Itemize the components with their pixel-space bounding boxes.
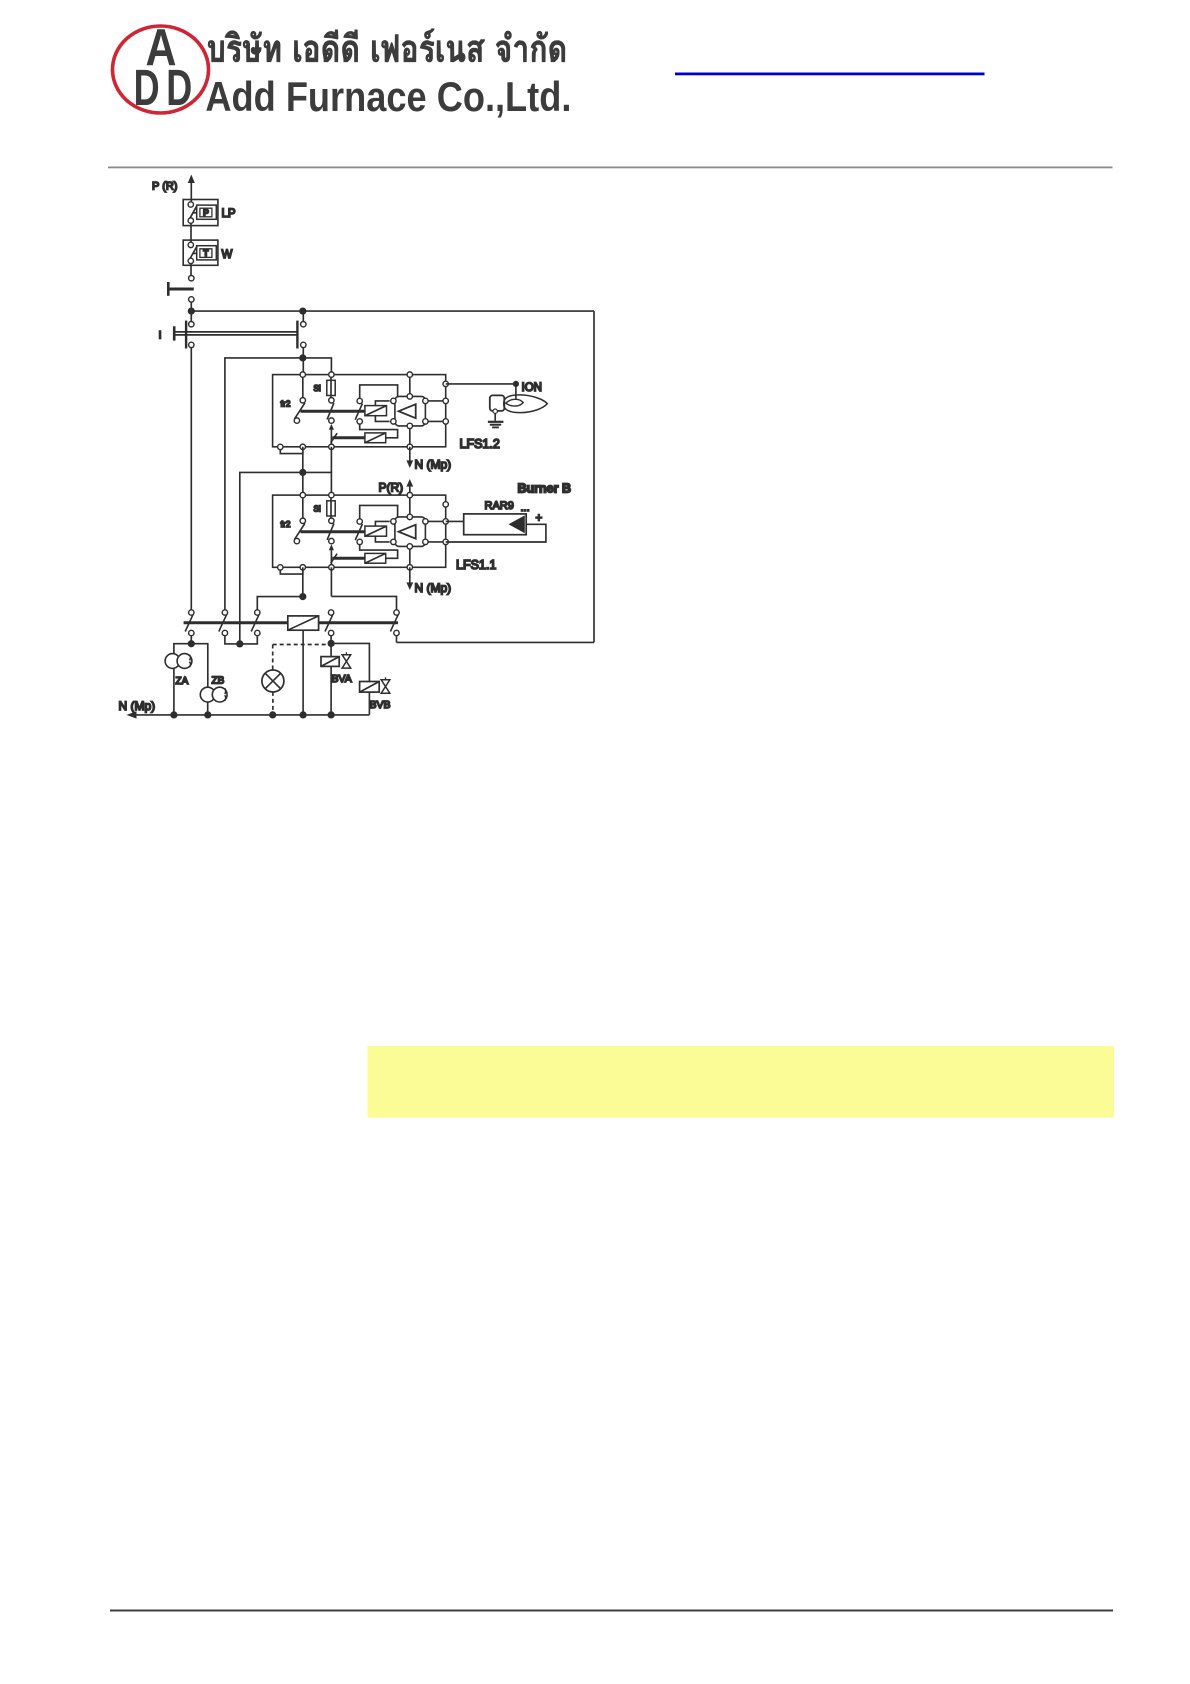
svg-text:RAR9: RAR9 xyxy=(485,500,514,512)
label ZB xyxy=(212,676,225,687)
wire LFS1.2 to LFS1.1 bus b xyxy=(330,447,332,473)
temperature switch W xyxy=(183,240,218,265)
wire second bus below interlock xyxy=(302,348,304,375)
junction dot left bus / top bus xyxy=(189,308,195,314)
label LFS1.1 xyxy=(456,558,496,572)
ignition transformer ZB xyxy=(200,687,227,715)
svg-text:...: ... xyxy=(521,502,530,514)
wire RAR9 to LFS1.1 terminals xyxy=(446,521,546,542)
company name Thai line (vector traced) xyxy=(208,28,565,62)
interlock switch I (2-pole) xyxy=(174,311,306,348)
yellow highlight block xyxy=(368,1046,1115,1118)
relay ganged bar wire xyxy=(184,621,398,624)
outer box Burner B bottom edge wire xyxy=(397,641,595,643)
svg-text:N (Mp): N (Mp) xyxy=(119,699,156,713)
wire left bus down to contact row xyxy=(190,348,192,610)
svg-text:+: + xyxy=(536,513,543,525)
svg-text:N (Mp): N (Mp) xyxy=(415,458,452,472)
junction dots on N bus xyxy=(171,712,334,718)
label LP xyxy=(222,208,236,220)
label W xyxy=(222,249,233,261)
svg-text:P(R): P(R) xyxy=(379,481,404,495)
junction dot holding circuit xyxy=(300,594,306,600)
wire LP to W xyxy=(190,223,192,242)
junction dot feed LFS1.2 xyxy=(300,355,306,361)
wire ION sensing line xyxy=(446,382,519,400)
blue underline link rule xyxy=(675,73,985,76)
relay contact k1 xyxy=(185,610,194,636)
svg-text:ION: ION xyxy=(522,382,542,394)
svg-text:ZA: ZA xyxy=(176,676,189,687)
signal lamp xyxy=(262,670,284,692)
wire branch to LFS1.2 terminal 2 xyxy=(303,358,332,375)
junction dot BVA feed xyxy=(328,641,334,647)
company name English line xyxy=(205,73,571,120)
burner control unit LFS1.1 xyxy=(273,492,449,574)
label N (Mp) LFS1.1 xyxy=(415,581,452,595)
wire LFS1.1 output b to contact k5 xyxy=(331,567,396,610)
svg-text:LFS1.2: LFS1.2 xyxy=(460,437,500,451)
wire W to manual switch xyxy=(190,264,192,276)
ground symbol xyxy=(488,422,504,428)
wire branch to holding contact b xyxy=(225,358,303,610)
node P (R) arrow LFS1.1 xyxy=(406,479,413,495)
svg-text:Burner B: Burner B xyxy=(518,482,571,496)
svg-text:Add Furnace Co.,Ltd.: Add Furnace Co.,Ltd. xyxy=(205,73,571,120)
fuel valve BVB xyxy=(331,643,390,715)
svg-text:T: T xyxy=(203,248,209,258)
relay coil K xyxy=(288,616,319,630)
svg-text:D: D xyxy=(166,59,192,116)
label N (Mp) LFS1.2 xyxy=(415,458,452,472)
node N (Mp) return arrow LFS1.2 xyxy=(406,447,413,468)
relay contact k3 xyxy=(251,610,260,636)
svg-text:D: D xyxy=(134,59,160,116)
svg-text:N (Mp): N (Mp) xyxy=(415,581,452,595)
bottom horizontal rule xyxy=(110,1610,1113,1612)
signal lamp dashed wires xyxy=(273,645,330,715)
label P (R) xyxy=(152,181,177,193)
fuel valve BVA xyxy=(321,636,351,715)
svg-text:ZB: ZB xyxy=(212,676,225,687)
label ZA xyxy=(176,676,189,687)
burner control unit LFS1.2 xyxy=(273,372,449,454)
wire to node junction xyxy=(190,302,192,311)
manual control switch xyxy=(167,276,194,303)
svg-text:P (R): P (R) xyxy=(152,181,177,193)
node P (R) supply arrow top-left xyxy=(188,175,195,202)
wire contacts k2 k3 holding link xyxy=(225,636,257,647)
wire contact k1 to ignition transformers xyxy=(174,636,208,688)
label Burner B xyxy=(518,482,571,496)
svg-text:BVA: BVA xyxy=(332,673,352,685)
label P(R) LFS1.1 xyxy=(379,481,404,495)
ionisation electrode xyxy=(490,395,505,413)
wire LFS1.1 output a down xyxy=(302,567,304,596)
wire feeds into LFS1.1 terminals xyxy=(303,472,332,495)
relay contact k2 xyxy=(219,610,228,636)
burner flame symbol xyxy=(504,395,548,413)
label BVB xyxy=(370,699,391,711)
svg-text:I: I xyxy=(159,330,162,342)
label LFS1.2 xyxy=(460,437,500,451)
label + polarity xyxy=(536,513,543,525)
bottom bus N (Mp) wire xyxy=(127,711,370,718)
wire electrode to ground xyxy=(494,413,496,420)
svg-text:fr2: fr2 xyxy=(281,519,291,529)
node N (Mp) return arrow LFS1.1 xyxy=(406,567,413,590)
relay contact k5 xyxy=(390,610,399,643)
outer box Burner B right edge wire xyxy=(593,311,595,642)
junction dot inter-block feed xyxy=(300,470,306,476)
svg-text:W: W xyxy=(222,249,233,261)
svg-text:P: P xyxy=(203,208,209,218)
label BVA xyxy=(332,673,352,685)
logo ADD Furnace red circle emblem xyxy=(113,19,209,116)
ignition transformer ZA xyxy=(165,654,192,715)
wire top bus to outer box xyxy=(191,310,594,312)
svg-text:LP: LP xyxy=(222,208,236,220)
pressure switch LP xyxy=(183,200,218,226)
junction dot top bus at second bus xyxy=(300,308,306,314)
svg-text:BVB: BVB xyxy=(370,699,391,711)
relay contact k4 xyxy=(325,610,334,636)
svg-text:LFS1.1: LFS1.1 xyxy=(456,558,496,572)
label RAR9... xyxy=(485,500,530,514)
label N (Mp) bottom xyxy=(119,699,156,713)
wire branch to relay pass-through xyxy=(240,472,303,644)
svg-text:Si: Si xyxy=(314,384,321,393)
label ION xyxy=(522,382,542,394)
wire LFS1.2 to LFS1.1 bus a xyxy=(302,447,304,473)
flame detector RAR9 cell xyxy=(464,514,527,535)
label I xyxy=(159,330,162,342)
top horizontal rule xyxy=(108,167,1113,169)
wire branch to contact k3 xyxy=(257,597,303,610)
wire relay coil to N bus xyxy=(302,630,304,715)
svg-text:Si: Si xyxy=(314,505,321,514)
svg-text:fr2: fr2 xyxy=(281,399,291,409)
